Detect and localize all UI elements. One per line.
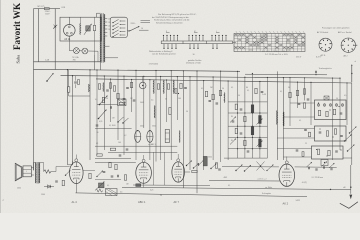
svg-text:zu Kl. 1 u. 2: zu Kl. 1 u. 2 xyxy=(258,179,267,181)
capacitor C7 xyxy=(126,86,129,88)
tube V1 AK2 xyxy=(279,164,295,186)
capacitor C14b xyxy=(261,90,264,92)
crossing wires X xyxy=(257,162,265,171)
resistor R24 xyxy=(318,110,320,115)
wire x156 xyxy=(155,71,157,162)
resistor R34 zigzag xyxy=(95,189,103,192)
resistor R10 xyxy=(117,93,119,98)
wire if h4 xyxy=(228,136,267,138)
switch S1 contacts xyxy=(112,22,113,23)
rail bottom 1 xyxy=(209,180,280,182)
resistor R3 xyxy=(98,84,100,89)
resistor R8 xyxy=(180,83,182,88)
wire x347b xyxy=(346,83,348,125)
contact arrow S3c xyxy=(348,145,355,152)
svg-text:110V: 110V xyxy=(45,14,50,16)
capacitor C23 xyxy=(340,134,343,136)
chassis symbol xyxy=(340,202,358,209)
hatched box xyxy=(106,189,118,196)
bus C AVC line xyxy=(96,79,352,83)
svg-text:zW: zW xyxy=(343,187,346,189)
resistor R21 xyxy=(289,92,291,97)
bus B screen supply xyxy=(61,76,341,79)
svg-text:255 V: 255 V xyxy=(296,57,302,59)
diode D1 xyxy=(53,25,57,29)
small box 4 xyxy=(321,160,328,166)
resistor R18 xyxy=(244,116,246,121)
padder trimmers row xyxy=(317,104,320,107)
resistor R25 xyxy=(326,111,328,116)
contact arrow af xyxy=(66,170,71,175)
svg-text:0,25: 0,25 xyxy=(150,189,153,191)
earth drop arrow xyxy=(350,165,352,194)
wire abc1 bottom xyxy=(143,183,145,187)
filter coil L0 xyxy=(79,24,82,35)
switch S2 lower contacts xyxy=(163,44,165,48)
capacitor C19 xyxy=(298,102,301,104)
wire stub xyxy=(141,20,151,22)
svg-text:4/62: 4/62 xyxy=(224,177,228,179)
band filter coil L2a xyxy=(153,80,156,94)
tuning box 3 xyxy=(312,146,344,159)
wire x203 xyxy=(203,81,205,170)
power unit box xyxy=(60,17,101,41)
wire x67 xyxy=(67,70,69,165)
wire x131 xyxy=(131,79,133,112)
switch S1 box xyxy=(110,17,127,37)
svg-text:von der Schaltseite gesehen: von der Schaltseite gesehen xyxy=(152,52,176,55)
svg-text:50: 50 xyxy=(106,98,108,100)
svg-text:2-C 22-38 mm Tol. ± 10%: 2-C 22-38 mm Tol. ± 10% xyxy=(265,54,288,56)
transformer taps xyxy=(104,18,107,20)
wire x72 xyxy=(72,76,74,165)
wire x190 xyxy=(189,77,191,170)
capacitor C14 xyxy=(216,102,219,104)
coil L12 xyxy=(203,156,207,166)
svg-text:Schirmgitter: Schirmgitter xyxy=(262,192,271,195)
svg-text:7V 0,3A: 7V 0,3A xyxy=(72,56,79,59)
resistor R16 xyxy=(219,90,221,95)
contact arrows S2a xyxy=(118,117,124,122)
wire x124 xyxy=(123,76,125,155)
wire if h2 xyxy=(228,112,267,114)
svg-text:25: 25 xyxy=(305,143,307,145)
svg-text:Favorit WK: Favorit WK xyxy=(12,3,22,50)
resistor R35 xyxy=(124,175,126,180)
svg-text:5000: 5000 xyxy=(140,102,144,104)
capacitor C17 xyxy=(240,132,243,134)
IF coil L8 xyxy=(259,116,262,124)
wire box2 left xyxy=(283,128,314,130)
svg-text:100: 100 xyxy=(118,142,121,144)
wire if h6 xyxy=(224,157,267,159)
band filter coil L2c xyxy=(173,80,176,94)
svg-text:0,2: 0,2 xyxy=(124,135,126,137)
hatched box rf xyxy=(118,99,127,106)
scale lamp La1 xyxy=(74,48,80,54)
resistor R23b xyxy=(303,103,305,108)
svg-text:0,1: 0,1 xyxy=(95,99,97,101)
wire x228 xyxy=(227,81,229,160)
wire AL4 bottom xyxy=(75,184,77,193)
svg-text:0,1: 0,1 xyxy=(228,185,230,187)
svg-text:AK 2: AK 2 xyxy=(344,55,348,58)
power box bottom xyxy=(34,61,102,63)
potentiometer P1b xyxy=(99,110,107,119)
trimmer arrow T1 xyxy=(230,117,236,123)
wire x259 xyxy=(259,82,261,159)
contact arrow S3a xyxy=(350,127,357,134)
wire if h1 xyxy=(228,101,267,103)
svg-text:0,35: 0,35 xyxy=(99,121,102,123)
svg-text:0,1: 0,1 xyxy=(96,143,98,145)
resistor R12 xyxy=(97,154,102,156)
trimmer arrow T2 xyxy=(230,139,236,145)
svg-text:ABC 1: ABC 1 xyxy=(138,200,146,204)
svg-text:10: 10 xyxy=(193,54,195,56)
wire rf h3 xyxy=(108,151,177,153)
resistor R40 xyxy=(175,89,177,94)
svg-text:Sicherung 1,2 A zu verwenden u: Sicherung 1,2 A zu verwenden und die xyxy=(154,19,190,22)
resistor R33 xyxy=(115,164,117,169)
coil L1b xyxy=(102,83,104,92)
capacitor C11 xyxy=(119,154,122,156)
wire left rail xyxy=(33,9,35,171)
wire x290 xyxy=(289,78,291,126)
capacitor row ak2 xyxy=(307,167,309,170)
resistor R30 xyxy=(328,150,330,155)
wire x197 xyxy=(196,71,198,193)
resistor R20 xyxy=(244,140,246,145)
capacitor C28 xyxy=(55,180,58,182)
wire x213 xyxy=(212,77,214,160)
wire x277 xyxy=(276,71,278,160)
svg-text:80: 80 xyxy=(231,116,233,118)
svg-text:0,5: 0,5 xyxy=(120,192,122,194)
potentiometer P2 xyxy=(99,183,105,188)
wire AL4 top xyxy=(68,164,73,166)
arrow mains feed xyxy=(129,26,140,31)
svg-text:0,1: 0,1 xyxy=(280,91,282,93)
loudspeaker LS xyxy=(15,163,22,181)
svg-text:Schalterstellung zu beachten: Schalterstellung zu beachten xyxy=(156,21,184,24)
capacitor C27 xyxy=(116,175,118,178)
resistor R27 xyxy=(326,131,328,136)
capacitor C21 xyxy=(340,112,343,114)
resistor R32 xyxy=(109,162,111,167)
svg-text:30: 30 xyxy=(97,132,99,134)
svg-text:0,1: 0,1 xyxy=(247,90,249,92)
resistor R22 xyxy=(296,90,298,95)
wire mains right drop xyxy=(54,9,56,70)
svg-text:50: 50 xyxy=(222,88,224,90)
contact arrow S3b xyxy=(345,135,352,142)
wire x332 xyxy=(332,78,334,160)
wire x267 xyxy=(266,77,268,158)
trimmer arrow T4 xyxy=(257,141,263,147)
transformer Tr1 core xyxy=(101,13,103,62)
coil L1 xyxy=(88,84,90,92)
wire x97 xyxy=(96,70,98,155)
voltage selector S0 xyxy=(86,26,90,31)
svg-text:5000: 5000 xyxy=(208,157,212,159)
resistor R15 xyxy=(212,94,214,99)
svg-text:L: L xyxy=(26,171,27,173)
wire x143 xyxy=(143,76,145,128)
transformer Tr1 primary xyxy=(99,14,101,62)
capacitor C22b xyxy=(304,128,307,130)
small valve socket xyxy=(139,82,146,89)
svg-text:AL 4: AL 4 xyxy=(72,200,78,204)
wire x183 xyxy=(182,71,184,188)
capacitor C9b xyxy=(96,124,99,126)
capacitor C24 xyxy=(335,150,338,152)
svg-text:0,5: 0,5 xyxy=(344,95,346,97)
wire rf h0 xyxy=(97,104,118,106)
svg-text:4-C(2): 4-C(2) xyxy=(302,182,307,184)
IF coil L7 xyxy=(251,127,254,135)
fuse Si1 xyxy=(44,8,49,10)
wire x340 xyxy=(339,78,341,150)
antenna switch arrow xyxy=(47,73,54,81)
capacitor C22 xyxy=(319,131,322,133)
svg-text:50: 50 xyxy=(238,95,240,97)
wire mains left drop xyxy=(38,9,40,62)
wire x311 xyxy=(310,82,312,125)
wire rf h4 xyxy=(95,158,131,160)
svg-text:1500: 1500 xyxy=(41,194,45,196)
wire rf h1 xyxy=(95,127,132,129)
wire transformer lead b xyxy=(97,51,99,62)
resistor R17 xyxy=(235,104,237,109)
switch matrix crosses xyxy=(235,34,238,36)
contact cluster S4 xyxy=(187,161,193,166)
wire box1 left xyxy=(290,102,315,104)
svg-text:0,1: 0,1 xyxy=(299,120,301,122)
svg-text:780: 780 xyxy=(73,60,76,62)
wire if h5 xyxy=(228,148,267,150)
waveband switch S2 shaft xyxy=(161,41,232,44)
capacitor C6 xyxy=(133,99,136,101)
wire x252 xyxy=(251,74,253,159)
svg-text:zur ABC 1: zur ABC 1 xyxy=(148,143,156,146)
capacitor C2 xyxy=(74,81,77,83)
capacitor C11b xyxy=(123,97,126,99)
wire af7 join xyxy=(185,171,191,173)
wire ak2 row xyxy=(295,166,337,168)
tube V3 ABC1 xyxy=(136,162,152,183)
wire mains top xyxy=(34,8,45,10)
wire x220 xyxy=(220,71,222,162)
trimmer box xyxy=(324,96,329,100)
bus A anode supply xyxy=(34,69,241,71)
scale lamp La2 xyxy=(82,48,88,54)
wire x352 xyxy=(351,83,353,165)
wire x136 xyxy=(135,70,137,160)
wire x297 xyxy=(297,82,299,108)
tuning box 2 xyxy=(315,126,347,141)
junction dots if xyxy=(237,112,238,113)
svg-text:+L: +L xyxy=(2,200,4,202)
socket AK2 xyxy=(341,38,355,52)
diode D2 xyxy=(44,186,54,188)
IF coil L9 xyxy=(259,139,262,147)
svg-text:220V~: 220V~ xyxy=(131,23,136,25)
resistor R16b xyxy=(255,88,257,93)
capacitor C25 xyxy=(103,170,106,172)
svg-text:AZ 11-Sockel: AZ 11-Sockel xyxy=(317,31,329,34)
resistor R2 xyxy=(68,87,70,92)
tube V2 AF7 xyxy=(172,162,185,182)
wire lamps xyxy=(68,41,70,51)
svg-text:AF 7: AF 7 xyxy=(174,200,180,204)
svg-text:2×38: 2×38 xyxy=(262,93,266,96)
capacitor C24b xyxy=(296,149,299,151)
IF can Tr3 xyxy=(147,131,153,143)
node HT+ arrow xyxy=(351,65,353,83)
tube V4 AL4 xyxy=(70,162,84,184)
wire x166 xyxy=(166,80,168,122)
coil L2 xyxy=(154,106,156,118)
svg-text:50: 50 xyxy=(165,99,167,101)
IF coil L6 xyxy=(251,105,254,113)
resistor R19 xyxy=(235,128,237,133)
coil L4 xyxy=(179,131,181,143)
contact arrows mid xyxy=(267,165,274,171)
wire x171 xyxy=(170,71,172,160)
svg-text:2-C 22-38 mm: 2-C 22-38 mm xyxy=(312,177,324,179)
svg-text:80: 80 xyxy=(246,87,248,89)
contact arrow af2 xyxy=(97,171,103,177)
capacitor C15 xyxy=(240,108,243,110)
wire rf h2 xyxy=(95,145,177,147)
resistor R13b xyxy=(119,102,124,104)
resistor R36 xyxy=(192,170,197,172)
resistor R4 xyxy=(109,83,111,88)
svg-text:50: 50 xyxy=(186,111,188,113)
capacitor C12 xyxy=(126,148,129,150)
svg-text:220V~: 220V~ xyxy=(45,11,52,13)
resistor R6 xyxy=(157,84,159,89)
wire x149 xyxy=(149,80,151,160)
svg-text:1717/1322: 1717/1322 xyxy=(149,64,159,66)
capacitor C13 xyxy=(209,99,212,101)
rail bottom 2 xyxy=(122,187,351,189)
wire x304 xyxy=(304,78,306,101)
wire x244 xyxy=(244,77,246,158)
resistor R13 xyxy=(110,148,115,150)
wire AL4 right xyxy=(83,170,95,172)
switch S2 group labels xyxy=(166,32,170,34)
output transformer Tr5 secondary xyxy=(38,163,40,184)
svg-text:Die Sicherung MT 0,75 gilt nur: Die Sicherung MT 0,75 gilt nur bei 220 V… xyxy=(158,13,197,16)
wire x177 xyxy=(176,77,178,120)
svg-text:50: 50 xyxy=(160,195,162,197)
wire x237 xyxy=(237,71,239,158)
wire right stub xyxy=(343,157,352,159)
switch S2 upper contacts xyxy=(163,36,165,41)
wire x110 xyxy=(110,79,112,122)
svg-text:14/22: 14/22 xyxy=(296,200,301,202)
svg-text:Trockengleichr.: Trockengleichr. xyxy=(319,68,333,70)
wire x104 xyxy=(103,76,105,150)
svg-text:Fassungen von unten gesehen: Fassungen von unten gesehen xyxy=(322,26,349,29)
wire transformer lead a xyxy=(94,55,96,70)
resistor R14 xyxy=(205,91,207,96)
resistor R5 xyxy=(113,86,115,91)
svg-text:0,1: 0,1 xyxy=(107,185,109,187)
wire antenna bottom xyxy=(69,95,90,97)
svg-text:0,1: 0,1 xyxy=(201,88,203,90)
capacitor C4 xyxy=(106,89,109,91)
wire x90 xyxy=(89,70,91,160)
svg-text:MT 0,75: MT 0,75 xyxy=(38,6,45,8)
svg-text:AZ 11: AZ 11 xyxy=(64,38,71,41)
rail bottom 3 xyxy=(76,193,308,197)
contact arrows ak2 right xyxy=(307,162,313,167)
capacitor C26 xyxy=(111,175,114,177)
coil L5 xyxy=(223,93,226,103)
svg-text:0,1: 0,1 xyxy=(231,87,233,89)
svg-text:Drehkond. 2×500: Drehkond. 2×500 xyxy=(186,61,201,64)
junction dots boxes xyxy=(318,102,319,103)
resistor R26 xyxy=(333,109,335,114)
svg-text:2000: 2000 xyxy=(17,188,21,190)
socket AZ11 xyxy=(319,38,332,51)
svg-text:L: L xyxy=(216,31,217,33)
output transformer Tr5 primary xyxy=(34,163,36,184)
svg-text:5000: 5000 xyxy=(152,126,156,128)
resistor R28 xyxy=(334,129,336,134)
resistor R31 zigzag xyxy=(44,170,51,173)
capacitor C10 xyxy=(109,106,111,109)
tuning box 1 xyxy=(315,100,347,120)
rectifier AZ 11 xyxy=(64,25,76,37)
wire transformer top xyxy=(97,12,101,14)
wire shaft left xyxy=(139,29,149,31)
wire to AL4 xyxy=(51,171,56,173)
resistor R9 xyxy=(130,82,132,87)
potentiometer P1 xyxy=(100,96,108,105)
resistor R39 xyxy=(62,180,64,185)
resistor R23 xyxy=(303,89,305,94)
resistor R37 xyxy=(215,163,217,168)
trimmer arrow T3 xyxy=(257,119,263,125)
wire af h2 xyxy=(95,179,121,181)
wire box3 left xyxy=(277,148,311,150)
svg-text:50: 50 xyxy=(288,87,290,89)
resistor R7 xyxy=(167,84,169,89)
svg-text:AK2 u.a. Sockel: AK2 u.a. Sockel xyxy=(338,31,352,34)
svg-text:0,1 5000: 0,1 5000 xyxy=(109,125,116,127)
wire af h1 xyxy=(95,162,136,164)
resistor R1 xyxy=(93,25,95,30)
svg-text:bei 110/125/150 V Netzspannung: bei 110/125/150 V Netzspannung ist die xyxy=(152,16,190,19)
matrix header ticks xyxy=(236,31,237,33)
svg-text:zur Skala: zur Skala xyxy=(265,186,272,189)
wire speaker xyxy=(31,167,34,169)
wire if h3 xyxy=(228,125,267,127)
capacitor C20 xyxy=(307,98,310,100)
svg-text:0,5: 0,5 xyxy=(151,99,153,101)
wire selector to arrow xyxy=(128,30,131,32)
IF can Tr2 xyxy=(135,131,141,143)
svg-text:100: 100 xyxy=(178,98,181,100)
output transformer Tr5 core xyxy=(36,162,38,184)
svg-text:10: 10 xyxy=(141,28,143,30)
capacitor C16 xyxy=(232,120,235,122)
svg-text:geteilter Drehko: geteilter Drehko xyxy=(188,59,201,62)
